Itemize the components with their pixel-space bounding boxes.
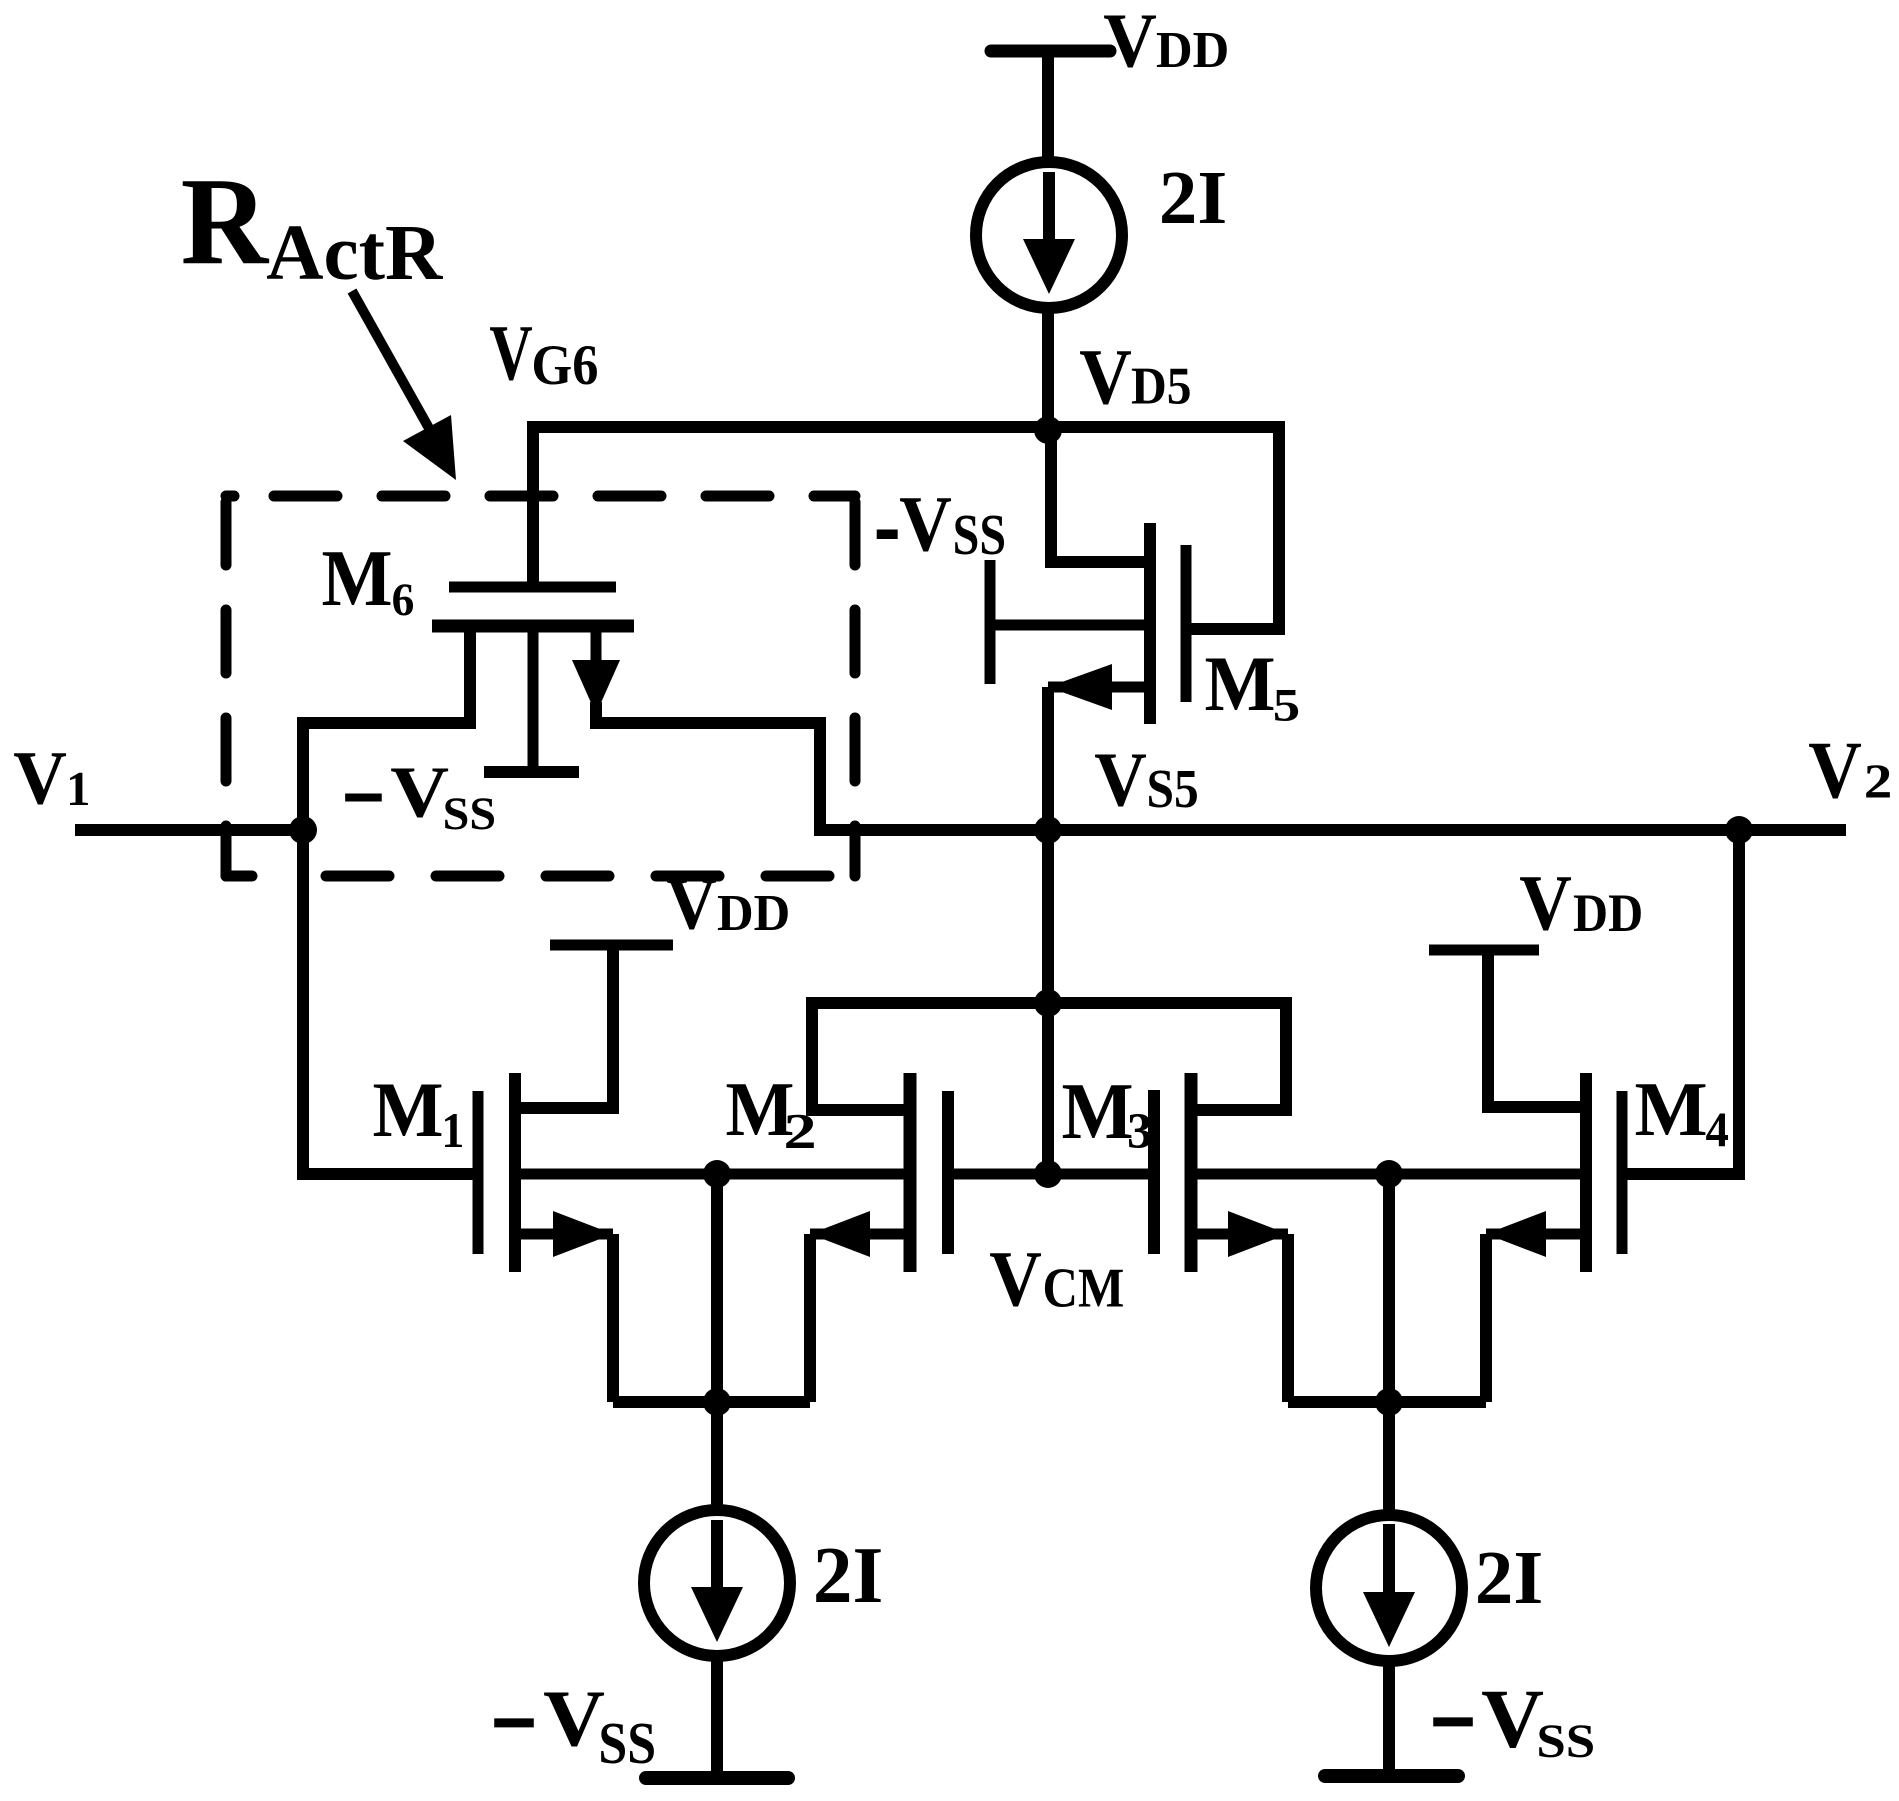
wire M6 drain to main line [596, 702, 820, 836]
value label 2I (bottom left) [813, 1532, 883, 1621]
wire to current source (left) [711, 1402, 723, 1512]
label VDD (right) [1519, 860, 1572, 947]
svg-text:3: 3 [1127, 1104, 1153, 1160]
transistor M5 channel bar [1144, 523, 1156, 724]
transistor M6 gate bar [449, 582, 616, 593]
svg-text:5: 5 [1273, 680, 1300, 732]
wire M4 source down [1480, 1234, 1492, 1402]
svg-text:DD: DD [1156, 21, 1229, 79]
label M3 [1061, 1066, 1133, 1155]
svg-text:SS: SS [598, 1711, 656, 1777]
wire current source to node VD5 [1042, 308, 1054, 430]
svg-text:6: 6 [392, 574, 415, 625]
transistor M3 gate bar [1148, 1090, 1160, 1254]
node VS5 junction [1034, 816, 1062, 844]
junction source node (left) [703, 1388, 731, 1416]
svg-text:4: 4 [1706, 1103, 1729, 1157]
wire M5 source lead [1048, 682, 1148, 693]
wire M3 drain to VS5 line [1048, 1003, 1286, 1110]
svg-text:1: 1 [66, 762, 90, 816]
svg-text:ActR: ActR [266, 209, 443, 297]
wire to current source (right) [1383, 1402, 1395, 1515]
power rail VDD (top) [991, 45, 1110, 58]
svg-text:V: V [1808, 724, 1862, 815]
label V2 [1808, 724, 1862, 815]
wire M3 source down [1282, 1234, 1294, 1402]
svg-text:V: V [1094, 737, 1147, 823]
power rail VDD (right) [1429, 945, 1539, 956]
wire M5 bulk lead [990, 620, 1148, 631]
svg-text:-: - [874, 462, 901, 586]
svg-text:SS: SS [443, 789, 496, 840]
label M2 [726, 1067, 795, 1152]
node VCM junction [1034, 1160, 1062, 1188]
transistor M3 source arrow [1191, 1229, 1288, 1240]
transistor M1 source arrow [515, 1229, 613, 1240]
svg-text:V: V [666, 862, 717, 945]
label VG6 [489, 310, 532, 398]
svg-text:2I: 2I [1159, 156, 1227, 240]
ground rail -VSS (left) [646, 1771, 788, 1785]
svg-text:M: M [1061, 1066, 1133, 1155]
wire VS5 down to VCM [1042, 830, 1054, 1174]
svg-text:M: M [372, 1066, 443, 1154]
junction M3/M4 bulk [1375, 1160, 1403, 1188]
node V1 junction [289, 816, 317, 844]
wire node VD5 horizontal [527, 421, 1285, 433]
svg-text:DD: DD [1573, 884, 1643, 944]
svg-text:V: V [543, 1674, 605, 1763]
transistor M5 source arrow [1048, 664, 1112, 710]
wire M1 drain to VDD [515, 945, 613, 1108]
transistor M4 gate bar [1617, 1091, 1628, 1254]
svg-text:2I: 2I [813, 1532, 883, 1621]
current source 2I (bottom right) [1316, 1515, 1462, 1661]
svg-text:M: M [321, 534, 392, 623]
value label 2I (bottom right) [1475, 1536, 1543, 1620]
wire VDD rail to current source [1042, 51, 1054, 168]
label VDD (top) [1103, 0, 1157, 84]
wire M2 gate lead [948, 1169, 1048, 1180]
svg-text:V: V [390, 751, 449, 832]
wire V1 input segment [75, 824, 303, 836]
wire M6 source to V1 node [303, 620, 470, 836]
transistor M1 channel bar [509, 1073, 521, 1272]
pointer arrow to R_ActR box [352, 291, 430, 430]
transistor M6 drain arrow [591, 626, 602, 664]
svg-text:G6: G6 [531, 333, 598, 396]
wire M3 gate lead [1048, 1169, 1154, 1180]
svg-text:−: − [341, 735, 386, 861]
svg-text:SS: SS [953, 501, 1006, 566]
wire VG6 down to M6 gate [527, 421, 539, 582]
label M1 [372, 1066, 443, 1154]
svg-text:M: M [1634, 1066, 1707, 1152]
svg-text:2: 2 [1864, 755, 1893, 808]
label VDD (left) [666, 862, 717, 945]
wire M2 drain to VS5 line [812, 1003, 1048, 1110]
wire M5 gate connection (right loop) [1191, 421, 1279, 629]
svg-text:−: − [1429, 1650, 1477, 1793]
wire M2 source down [804, 1234, 816, 1402]
label VS5 [1094, 737, 1147, 823]
svg-text:V: V [899, 481, 952, 568]
transistor M2 channel bar [904, 1073, 917, 1272]
node V2 junction [1725, 816, 1753, 844]
wire M4 gate to V2 [1622, 824, 1739, 1174]
svg-text:2I: 2I [1475, 1536, 1543, 1620]
node VD5 label [1079, 334, 1132, 421]
transistor M3 channel bar [1185, 1073, 1198, 1272]
wire M3/M4 bulk line [1191, 1169, 1586, 1180]
label -VSS (bottom left) [490, 1651, 538, 1794]
wire common source rail (left) [613, 1396, 810, 1408]
svg-text:V: V [489, 310, 532, 398]
transistor M1 gate bar [473, 1091, 484, 1254]
value label 2I (top) [1159, 156, 1227, 240]
svg-text:V: V [13, 737, 67, 821]
transistor M4 source arrow [1486, 1229, 1586, 1240]
svg-text:V: V [1519, 860, 1572, 947]
svg-text:CM: CM [1043, 1257, 1125, 1319]
transistor M4 channel bar [1580, 1073, 1592, 1272]
wire common source rail (right) [1288, 1396, 1486, 1408]
active resistor R_ActR label [181, 151, 270, 290]
svg-text:S5: S5 [1147, 758, 1199, 819]
current source 2I (top) [976, 162, 1122, 308]
label -VSS (M5 bulk) [874, 462, 901, 586]
transistor M2 gate bar [942, 1091, 954, 1254]
svg-text:−: − [490, 1651, 538, 1794]
transistor M5 gate bar [1181, 545, 1192, 702]
label -VSS (M6 bulk) [341, 735, 386, 861]
svg-text:V: V [989, 1236, 1042, 1323]
power rail VDD (left) [550, 940, 673, 951]
junction source node (right) [1375, 1388, 1403, 1416]
wire bulk junction down to source node (right) [1383, 1174, 1395, 1402]
svg-text:M: M [1204, 640, 1275, 728]
label M5 [1204, 640, 1275, 728]
label -VSS (bottom right) [1429, 1650, 1477, 1793]
label M6 [321, 534, 392, 623]
wire bulk junction down to source node (left) [711, 1174, 723, 1402]
wire M5 source to node VS5 [1042, 687, 1054, 830]
wire current source to -VSS rail (right) [1383, 1659, 1395, 1776]
label VCM [989, 1236, 1042, 1323]
R_ActR dashed box [226, 491, 234, 502]
svg-text:D5: D5 [1131, 357, 1192, 416]
wire current source to -VSS rail (left) [711, 1654, 723, 1778]
transistor M6 bulk lead and rail [528, 626, 539, 772]
svg-text:R: R [181, 151, 270, 290]
transistor M5 bulk rail bar [985, 560, 996, 684]
ground rail -VSS (right) [1325, 1769, 1458, 1783]
junction M1/M2 bulk [703, 1160, 731, 1188]
wire M1 source down [607, 1234, 619, 1402]
current source 2I (bottom left) [644, 1510, 790, 1656]
svg-text:1: 1 [441, 1103, 464, 1158]
svg-text:V: V [1103, 0, 1157, 84]
node VD5 junction [1034, 416, 1062, 444]
wire VS5 to V2 segment [820, 824, 1846, 836]
svg-text:V: V [1481, 1673, 1544, 1765]
wire M4 drain to VDD [1488, 950, 1586, 1107]
transistor M2 source arrow [810, 1229, 910, 1240]
svg-text:V: V [1079, 334, 1132, 421]
transistor M6 channel bar [432, 620, 634, 633]
svg-text:SS: SS [1536, 1714, 1595, 1767]
label V1 [13, 737, 67, 821]
wire M1/M2 bulk line [515, 1169, 910, 1180]
svg-text:DD: DD [717, 884, 790, 942]
junction M2/M3 drains [1034, 989, 1062, 1017]
wire M5 drain [1051, 430, 1148, 562]
wire V1 node to M1 gate [303, 824, 478, 1174]
label M4 [1634, 1066, 1707, 1152]
